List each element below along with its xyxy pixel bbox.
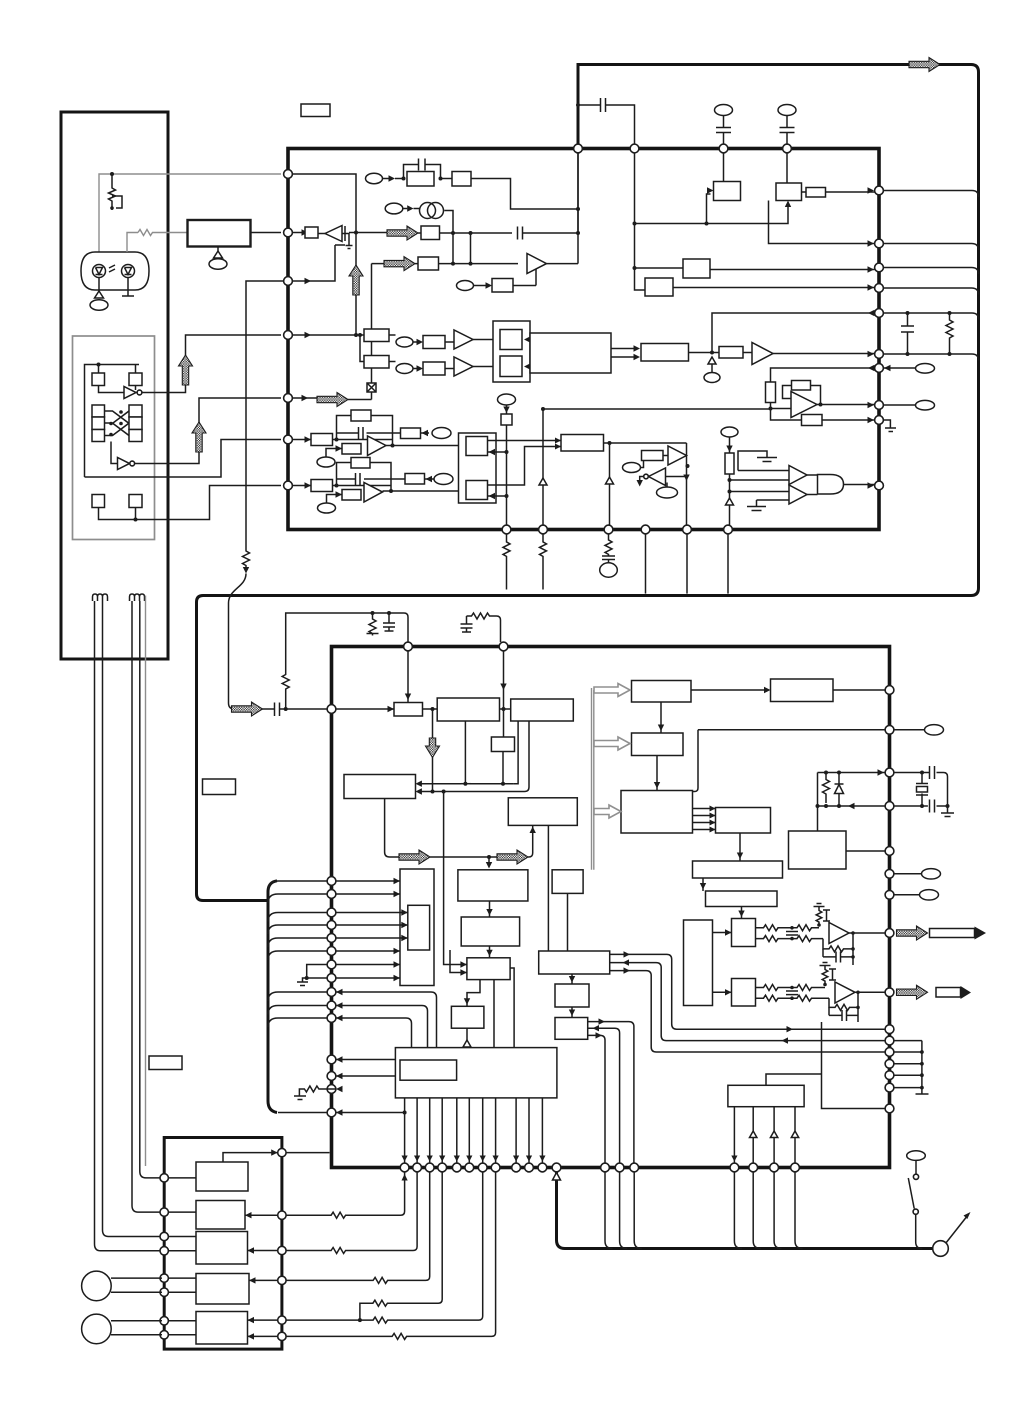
box D3 bbox=[196, 1232, 248, 1265]
pin B608 bbox=[604, 525, 613, 534]
bias RC above opamp L bbox=[814, 904, 825, 907]
out row E to DAC a bbox=[391, 444, 395, 448]
pin W556 bbox=[552, 1163, 561, 1172]
gnd tie pins 964/978 bbox=[303, 965, 328, 983]
pin W417 bbox=[413, 1163, 422, 1172]
pin U408 vertical bbox=[407, 651, 409, 703]
transformer row ellipse bbox=[385, 203, 403, 214]
right side wires into boxes bbox=[245, 1215, 278, 1336]
wire to chain corner bbox=[471, 179, 578, 210]
box before tri U bbox=[719, 347, 743, 359]
T9 input from right edge wire bbox=[822, 1022, 886, 1109]
pin V1108 bbox=[885, 1104, 894, 1113]
box D2 bbox=[196, 1201, 245, 1230]
box T8 bbox=[789, 831, 847, 869]
ellipse above T723 bbox=[715, 105, 733, 116]
pin V873 bbox=[885, 869, 894, 878]
driver left pins bbox=[160, 1174, 168, 1182]
pin L894 bbox=[327, 890, 336, 899]
pin V1064 bbox=[885, 1059, 894, 1068]
row1 to W404 bbox=[286, 1172, 405, 1218]
pins W734-W795 down to bus bbox=[734, 1172, 802, 1249]
wire LED to gnd arrow bbox=[98, 278, 100, 293]
fb cap row F bbox=[337, 478, 392, 480]
box A pll bbox=[714, 182, 741, 201]
outside pin R405 ellipse bbox=[883, 404, 915, 406]
VCO row: ellipse bbox=[366, 173, 383, 183]
pin R354 bbox=[875, 350, 884, 359]
knob arrow bbox=[946, 1215, 968, 1243]
feedback cap loop over box bbox=[404, 165, 441, 179]
plus in bbox=[771, 408, 792, 410]
box E bbox=[683, 259, 710, 278]
out row F to DAC b bbox=[389, 489, 393, 493]
pin V1075 bbox=[885, 1071, 894, 1080]
pin V1029 bbox=[885, 1025, 894, 1034]
box T10 bbox=[395, 1048, 557, 1098]
pin W542 bbox=[538, 1163, 547, 1172]
pin V894 bbox=[885, 890, 894, 899]
pin T634 vertical bbox=[635, 153, 646, 290]
pin U503 vertical into N4 bbox=[503, 651, 505, 737]
pin L1018 bbox=[327, 1014, 336, 1023]
pin V933 bbox=[885, 929, 894, 938]
box T2 bbox=[632, 733, 684, 756]
pin P281 bbox=[284, 277, 293, 286]
gnd bottom bbox=[747, 500, 766, 511]
D1 top fb wire bbox=[223, 1153, 278, 1162]
pin W456 bbox=[452, 1163, 461, 1172]
pin L938 bbox=[327, 934, 336, 943]
row2 to W417 bbox=[286, 1172, 417, 1254]
M3 right wires to pins V1029-V1052 bbox=[610, 954, 885, 1029]
pin B645 bbox=[641, 525, 650, 534]
M1 right jogs into DSP bbox=[494, 968, 514, 1048]
T3 outputs to T5 bbox=[693, 809, 716, 830]
box R2 bbox=[732, 979, 756, 1007]
pin W753 bbox=[749, 1163, 758, 1172]
pin L881 bbox=[327, 877, 336, 886]
pin R354 out bbox=[883, 354, 978, 361]
pin T578 inner wire bbox=[577, 153, 579, 233]
stub wires 1059/1076 into DSP bbox=[336, 1059, 400, 1061]
up-triangle terminal bbox=[95, 291, 104, 298]
pin R288 out bbox=[883, 288, 978, 295]
FF1 outer box bbox=[493, 321, 530, 382]
pin R240 out bbox=[883, 244, 978, 251]
box W1 bbox=[458, 870, 528, 901]
fb box row E bbox=[337, 416, 393, 446]
M5 right wires to bottom pins bbox=[588, 1022, 634, 1164]
T6 to T7 bbox=[702, 878, 704, 891]
gnd mini bbox=[346, 246, 353, 249]
long wires down to driver unit bbox=[95, 659, 163, 1251]
motor M1 bbox=[82, 1271, 112, 1301]
V2 inner register bbox=[408, 905, 430, 950]
bias rail x506 bbox=[498, 394, 516, 405]
gate bar bbox=[345, 226, 349, 243]
driver right pins bbox=[278, 1148, 286, 1156]
hatched arrow B3 bbox=[399, 850, 430, 864]
pin L951 bbox=[327, 947, 336, 956]
box N2 bbox=[437, 698, 499, 721]
opamp A bbox=[791, 392, 817, 418]
box W4 bbox=[508, 798, 577, 826]
pin W795 bbox=[791, 1163, 800, 1172]
defeat tri cluster bbox=[623, 463, 641, 473]
pin B506 bbox=[502, 525, 511, 534]
row C: pin232 buffer chain bbox=[302, 229, 309, 235]
B645 tail bbox=[645, 534, 647, 594]
pin L1059 bbox=[327, 1055, 336, 1064]
pin1089 resistor gnd bbox=[294, 1086, 336, 1100]
box D4 bbox=[196, 1274, 249, 1305]
connector comb 2 bbox=[130, 594, 145, 601]
box M5 bbox=[555, 1018, 588, 1040]
switch box S2 bbox=[129, 373, 142, 386]
feedback R loop L bbox=[823, 939, 853, 952]
pin R190 wire to bus bbox=[883, 191, 978, 198]
pin L709 bbox=[327, 705, 336, 714]
photo tr emitter bar bbox=[122, 278, 134, 297]
pin T723 bbox=[719, 144, 728, 153]
W5 bottom to strobe row bbox=[385, 799, 400, 858]
box N1 bbox=[394, 703, 423, 717]
pin R240 wire bbox=[769, 201, 875, 244]
split to G2 bbox=[360, 335, 364, 362]
8 input wires from left pins bbox=[336, 881, 408, 978]
pin R288 bbox=[875, 284, 884, 293]
mechanism unit outer box bbox=[61, 112, 168, 659]
box T3 bbox=[621, 791, 693, 834]
branch down to pin B608 bbox=[609, 443, 611, 525]
pin R368 bbox=[875, 364, 884, 373]
pin R267 out bbox=[883, 268, 978, 275]
hatched arrow A7 up on that wire bbox=[349, 265, 363, 295]
box T4 bbox=[771, 679, 834, 702]
pin W516 bbox=[512, 1163, 521, 1172]
gnd bracket top bbox=[738, 451, 777, 471]
ellipse below E bbox=[317, 457, 335, 467]
switch box S1 bbox=[92, 373, 105, 386]
out to pin R405 bbox=[817, 404, 875, 406]
box C out bbox=[806, 188, 826, 198]
resistor vertical (photo bias) bbox=[109, 174, 116, 206]
photo transistor D2 bbox=[122, 265, 135, 278]
bracket stubs bbox=[268, 881, 327, 889]
wire to IC1 pin 232 bbox=[251, 232, 282, 234]
row D left vertical to row G bbox=[371, 264, 373, 335]
pin B687 bbox=[683, 525, 692, 534]
resistor box bbox=[725, 453, 734, 474]
inverter G1 bbox=[124, 387, 136, 399]
tall box V2 input port bbox=[400, 869, 434, 986]
pin R190 bbox=[875, 186, 884, 195]
pin W774 bbox=[770, 1163, 779, 1172]
series cap bbox=[275, 703, 280, 717]
box M3 bbox=[539, 951, 610, 974]
T1 to T2 bbox=[660, 702, 662, 733]
pin R267 bbox=[875, 263, 884, 272]
ellipse below F bbox=[318, 503, 336, 513]
pin L925 bbox=[327, 921, 336, 930]
LED D1 bbox=[93, 265, 106, 278]
driver unit box bottom-left bbox=[164, 1138, 282, 1350]
net to pin 485 bbox=[99, 486, 282, 520]
box VCO R bbox=[407, 172, 434, 187]
RC pair 2 bbox=[467, 613, 501, 642]
bias tri + ellipse under node bbox=[711, 357, 713, 372]
pin W469 bbox=[465, 1163, 474, 1172]
pin V1041 bbox=[885, 1036, 894, 1045]
hatched arrow A1 bbox=[179, 355, 193, 385]
gray sense wire down bbox=[145, 596, 147, 1167]
T5 to T6 bbox=[739, 833, 741, 861]
pins V873/V894 test ellipses bbox=[894, 873, 922, 875]
pin V851 bbox=[885, 847, 894, 856]
opamp F bbox=[364, 483, 383, 503]
arrows out on 992-1018 bbox=[336, 989, 343, 995]
pins V1064..V1088 gnd stubs bbox=[894, 1041, 922, 1088]
box row C bbox=[421, 226, 440, 240]
tall box V1 bbox=[684, 920, 713, 1006]
pin R420 bbox=[875, 416, 884, 425]
pin T787 bbox=[783, 144, 792, 153]
box M4 bbox=[555, 984, 589, 1007]
out arrow R (hatched + jack) bbox=[897, 985, 928, 999]
osc diode bbox=[835, 773, 844, 807]
pin W442 bbox=[438, 1163, 447, 1172]
pin V1052 bbox=[885, 1048, 894, 1057]
arrows out on 1059-1112 bbox=[336, 1056, 343, 1062]
box T5 bbox=[716, 808, 771, 834]
ellipse below driver bbox=[209, 259, 227, 269]
pin174 wire down to row C bbox=[292, 174, 356, 335]
pin L978 bbox=[327, 974, 336, 983]
ext fb from pin R313 bbox=[712, 313, 875, 353]
and gate bbox=[818, 475, 844, 495]
transformer T1 bbox=[420, 203, 436, 219]
pin1112 wire bbox=[336, 1112, 405, 1114]
arrows into inner right edges bbox=[530, 340, 544, 367]
box row D bbox=[418, 257, 439, 270]
opamp R chain bbox=[756, 985, 826, 991]
DAC a out to mixer bbox=[488, 440, 562, 442]
pin B728 bbox=[724, 525, 733, 534]
ellipse above T787 bbox=[778, 105, 796, 116]
hatched arrow on top bus bbox=[909, 58, 940, 72]
box D5 bbox=[196, 1312, 248, 1345]
inverter G1 out to pin 335 bbox=[142, 335, 281, 393]
label box mid-left bbox=[203, 779, 236, 795]
pin P174 bbox=[284, 170, 293, 179]
pin V806 bbox=[885, 802, 894, 811]
box W2 bbox=[461, 917, 519, 946]
FF1 inner a bbox=[500, 330, 522, 350]
FF1 inner b bbox=[500, 356, 522, 377]
box T1 bbox=[632, 681, 692, 703]
pin W482 bbox=[478, 1163, 487, 1172]
T7 to R1 bbox=[741, 907, 743, 919]
box G1 bbox=[364, 329, 389, 342]
bias wire y223 bbox=[635, 205, 789, 224]
IC2 DSP outline bbox=[332, 647, 890, 1168]
trim clip symbol bbox=[112, 196, 122, 210]
pin W619 bbox=[615, 1163, 624, 1172]
pins W605-W634 down to bus bbox=[605, 1172, 642, 1249]
bias ellipse under comparator bbox=[457, 281, 474, 291]
pin U503 bbox=[499, 642, 508, 651]
box Bbus bbox=[552, 870, 583, 894]
pins992-1018 route to T10 top bbox=[336, 992, 437, 1048]
box G2 bbox=[364, 356, 389, 369]
M1 left inputs bbox=[444, 950, 467, 973]
inverter-left cluster bbox=[649, 468, 666, 486]
pin P232 bbox=[284, 228, 293, 237]
pin L964 bbox=[327, 960, 336, 969]
pin V730 bbox=[885, 725, 894, 734]
C drop bbox=[383, 613, 395, 631]
inverter G2 bbox=[118, 458, 130, 470]
box H bbox=[641, 344, 689, 362]
series cap row C bbox=[518, 227, 523, 240]
main bus loop wire (wrapper) bbox=[197, 65, 979, 901]
cap x907 bbox=[901, 313, 914, 354]
box below E bbox=[342, 444, 361, 455]
arrows to box H bbox=[611, 349, 636, 358]
pin R485 bbox=[875, 481, 884, 490]
opamp R bbox=[835, 982, 855, 1003]
pin V772 bbox=[885, 768, 894, 777]
box M2 bbox=[451, 1006, 484, 1028]
bottom boxes S3 S4 bbox=[92, 495, 105, 508]
buffer tri 2 bbox=[789, 485, 807, 504]
box T11 sub bbox=[400, 1060, 457, 1080]
corner to IC2 top pin408 bbox=[404, 613, 408, 642]
crystal X1 bbox=[921, 773, 923, 807]
inverter G2 out to pin 398 bbox=[135, 398, 281, 464]
label box top bbox=[301, 104, 330, 117]
row D: hatched arrow A4 bbox=[372, 263, 387, 265]
left pin wires to boxes bbox=[168, 1178, 196, 1335]
motor M2 bbox=[82, 1314, 112, 1344]
stack left boxes bbox=[92, 405, 105, 417]
box N4 bbox=[491, 737, 514, 752]
outside pin R368 ellipse bbox=[883, 367, 916, 369]
pin W404 bbox=[400, 1163, 409, 1172]
box T9 bbox=[728, 1085, 804, 1106]
DAC b out routed up bbox=[488, 447, 562, 486]
outside top-left cap branch bbox=[576, 103, 580, 107]
pin L1089 bbox=[327, 1085, 336, 1094]
connector comb 1 bbox=[93, 594, 108, 601]
pin V690 ellipse? wire right bbox=[894, 729, 925, 731]
pin R240 bbox=[875, 239, 884, 248]
box before tr bbox=[305, 227, 318, 238]
pin V992 bbox=[885, 988, 894, 997]
pin B543 bbox=[539, 525, 548, 534]
Bbus to M3 wire bbox=[567, 893, 569, 951]
tri arrow up bbox=[726, 498, 734, 505]
cable bracket left of IC2 bbox=[268, 881, 277, 1113]
pin U408 bbox=[404, 642, 413, 651]
volume knob circle bbox=[933, 1241, 949, 1257]
lower box to pin R420 bbox=[771, 409, 802, 421]
pin L992 bbox=[327, 988, 336, 997]
pin W429 bbox=[425, 1163, 434, 1172]
gray wire to IC1 pin 174 bbox=[99, 174, 281, 252]
side tap box E bbox=[401, 428, 421, 439]
pin W529 bbox=[525, 1163, 534, 1172]
transformer out wire down to rows bbox=[444, 211, 453, 264]
R drop bbox=[367, 613, 379, 636]
fb box bbox=[792, 381, 811, 391]
pin L912 bbox=[327, 908, 336, 917]
wire y1029 long from M3 done above; T9 top link bbox=[766, 1074, 822, 1085]
pin L1076 bbox=[327, 1072, 336, 1081]
sync sep down wire bbox=[443, 792, 445, 959]
bottom audio bus bold wire bbox=[557, 1170, 933, 1249]
comparator triangle row D bbox=[527, 254, 547, 274]
fb box row F bbox=[337, 463, 392, 492]
resistor box vertical bbox=[766, 382, 776, 403]
output triangle U bbox=[752, 343, 773, 365]
B608 res cap ellipse bbox=[602, 534, 615, 563]
inverter-left transistor tri bbox=[325, 226, 342, 242]
opamp L chain resistors bbox=[756, 925, 820, 931]
fb cap row E bbox=[337, 432, 393, 434]
box M1 bbox=[467, 958, 510, 980]
pin P485 bbox=[284, 481, 293, 490]
crossed box on vertical bbox=[367, 383, 376, 392]
light arrows bbox=[109, 265, 115, 272]
box VCO R2 bbox=[441, 178, 453, 180]
chain 2 bbox=[396, 364, 413, 374]
pin R313 out bbox=[883, 313, 978, 320]
resistor x949 bbox=[946, 313, 953, 354]
pin T634 bbox=[630, 144, 639, 153]
T10 bottom wires to bottom pins bbox=[405, 1098, 543, 1163]
box T6 wide bbox=[693, 861, 783, 878]
W4 to M3 bbox=[547, 825, 549, 951]
RC divider above bbox=[282, 613, 368, 709]
pin T578 bbox=[574, 144, 583, 153]
feedback R loop R bbox=[829, 998, 859, 1010]
B728 tail bbox=[727, 534, 729, 594]
opamp L bbox=[829, 923, 849, 944]
DAC inner b bbox=[466, 481, 488, 500]
row3b branch bbox=[358, 1318, 362, 1322]
pin W734 bbox=[730, 1163, 739, 1172]
row3 to W429 bbox=[286, 1172, 430, 1284]
inner gray frame in mechanism bbox=[73, 336, 155, 540]
box below F bbox=[342, 490, 361, 501]
opamp E bbox=[368, 436, 387, 456]
pin R368 inside wire bbox=[771, 368, 875, 382]
box H out node bbox=[689, 352, 720, 354]
mixer out bbox=[604, 442, 687, 444]
row C continue: hatched arrow A3 bbox=[349, 232, 389, 234]
pin L1005 bbox=[327, 1001, 336, 1010]
box W5 bbox=[344, 775, 416, 799]
spindle driver box bbox=[188, 220, 251, 247]
pin W634 bbox=[630, 1163, 639, 1172]
pin V1088 bbox=[885, 1083, 894, 1092]
hatched down arrow B2 bbox=[432, 709, 434, 740]
pin398 row hatched arrow A5 bbox=[302, 395, 309, 401]
stack right boxes bbox=[129, 405, 142, 417]
long wire pin281 to IC2 in bbox=[243, 281, 284, 568]
